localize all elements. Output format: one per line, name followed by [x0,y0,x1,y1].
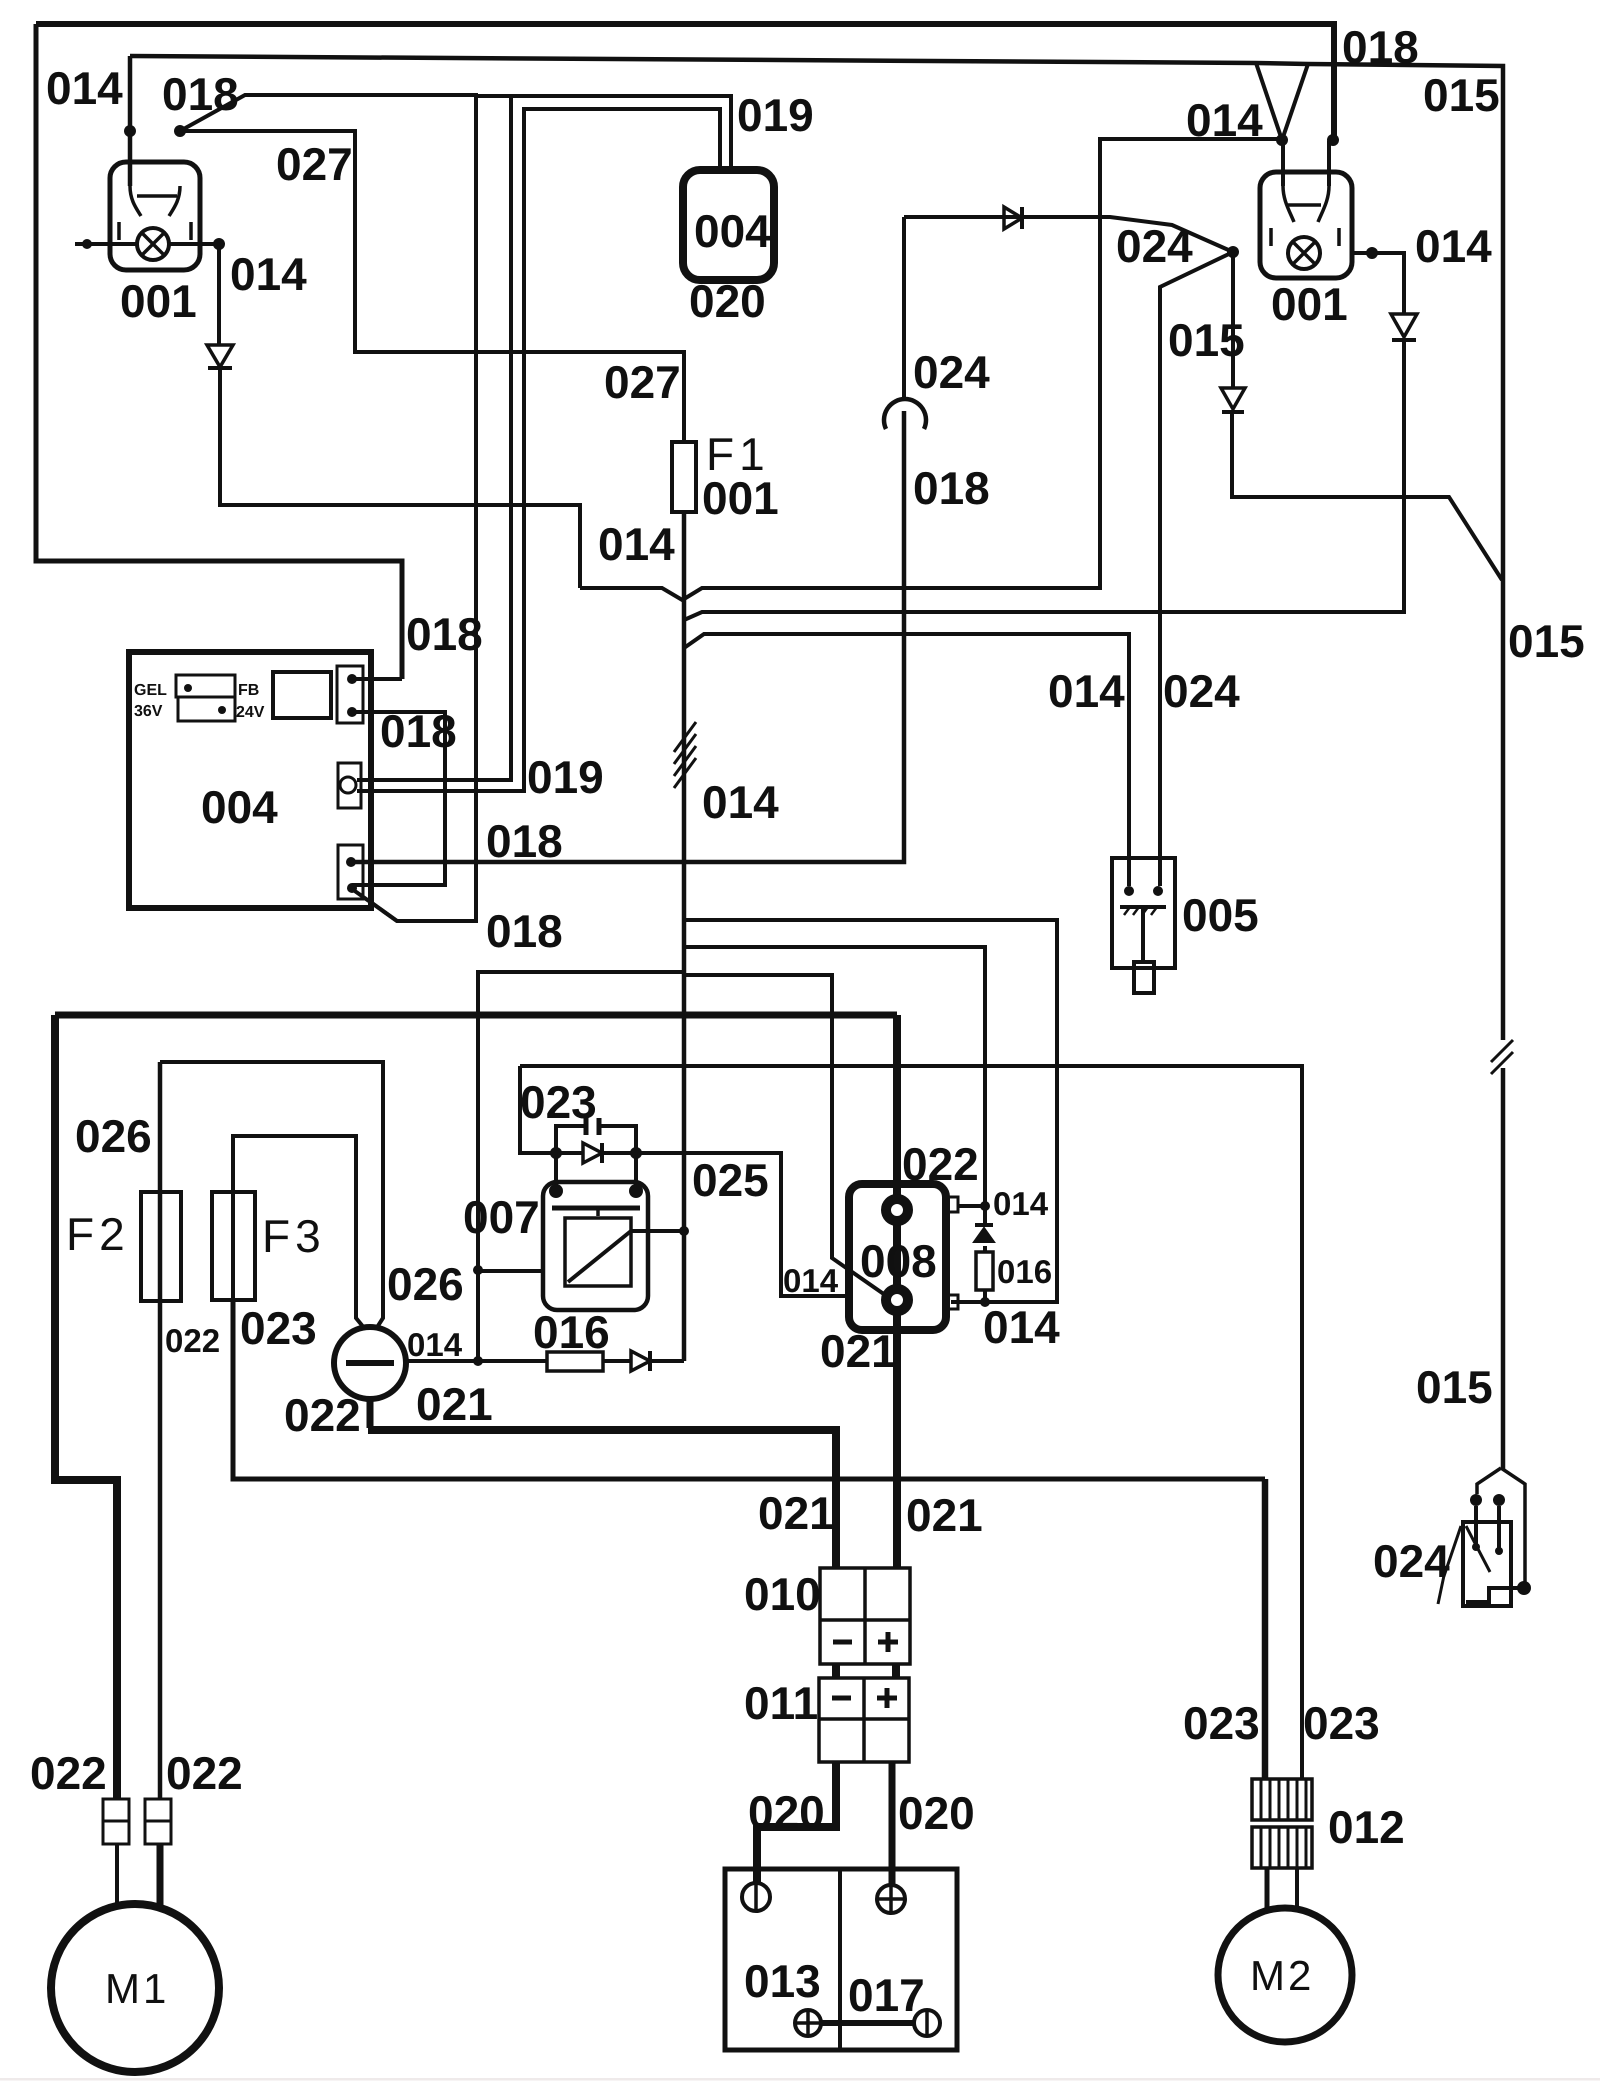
svg-text:014: 014 [230,248,307,300]
svg-text:025: 025 [692,1154,769,1206]
svg-text:005: 005 [1182,889,1259,941]
svg-text:014: 014 [1415,220,1492,272]
svg-text:014: 014 [993,1185,1049,1222]
svg-text:010: 010 [744,1568,821,1620]
svg-text:016: 016 [533,1306,610,1358]
svg-text:011: 011 [744,1677,818,1729]
svg-text:024: 024 [1373,1535,1450,1587]
svg-text:F3: F3 [262,1210,326,1262]
svg-text:012: 012 [1328,1801,1405,1853]
svg-text:026: 026 [75,1110,152,1162]
svg-text:014: 014 [407,1326,463,1363]
svg-text:022: 022 [284,1389,361,1441]
svg-text:024: 024 [1116,220,1193,272]
svg-text:015: 015 [1168,314,1245,366]
svg-text:018: 018 [380,705,457,757]
svg-text:021: 021 [416,1378,493,1430]
svg-text:018: 018 [162,68,239,120]
svg-text:027: 027 [276,138,353,190]
svg-text:022: 022 [165,1322,220,1359]
svg-text:014: 014 [598,518,675,570]
svg-text:018: 018 [1342,21,1419,73]
svg-text:014: 014 [1048,665,1125,717]
svg-text:M1: M1 [105,1965,169,2012]
svg-text:004: 004 [694,205,771,257]
svg-text:024: 024 [1163,665,1240,717]
svg-text:018: 018 [406,608,483,660]
svg-text:023: 023 [240,1302,317,1354]
svg-text:014: 014 [1186,94,1263,146]
svg-text:001: 001 [1271,278,1348,330]
svg-text:013: 013 [744,1955,821,2007]
svg-text:004: 004 [201,781,278,833]
svg-text:022: 022 [166,1747,243,1799]
svg-text:018: 018 [486,815,563,867]
svg-text:FB: FB [238,682,259,699]
svg-text:020: 020 [748,1786,825,1838]
svg-text:017: 017 [848,1969,925,2021]
svg-text:014: 014 [983,1301,1060,1353]
svg-text:24V: 24V [236,704,265,721]
svg-text:022: 022 [902,1138,979,1190]
svg-text:001: 001 [120,275,197,327]
svg-text:015: 015 [1508,615,1585,667]
svg-text:018: 018 [913,462,990,514]
svg-text:014: 014 [46,62,123,114]
svg-text:023: 023 [1183,1697,1260,1749]
svg-text:014: 014 [702,776,779,828]
svg-text:015: 015 [1423,69,1500,121]
svg-text:021: 021 [906,1489,983,1541]
svg-text:021: 021 [758,1487,835,1539]
svg-text:36V: 36V [134,703,163,720]
svg-text:026: 026 [387,1258,464,1310]
svg-text:001: 001 [702,472,779,524]
svg-text:019: 019 [737,89,814,141]
svg-text:007: 007 [463,1191,540,1243]
svg-text:020: 020 [689,275,766,327]
svg-text:016: 016 [997,1253,1052,1290]
svg-text:023: 023 [1303,1697,1380,1749]
svg-text:023: 023 [520,1076,597,1128]
svg-text:024: 024 [913,346,990,398]
svg-text:027: 027 [604,356,681,408]
svg-text:M2: M2 [1250,1952,1314,1999]
svg-text:020: 020 [898,1787,975,1839]
svg-text:015: 015 [1416,1361,1493,1413]
svg-text:021: 021 [820,1325,897,1377]
svg-text:008: 008 [860,1235,937,1287]
svg-text:F2: F2 [66,1208,130,1260]
svg-text:014: 014 [783,1262,839,1299]
svg-text:022: 022 [30,1747,107,1799]
svg-text:018: 018 [486,905,563,957]
svg-text:019: 019 [527,751,604,803]
svg-text:GEL: GEL [134,682,167,699]
